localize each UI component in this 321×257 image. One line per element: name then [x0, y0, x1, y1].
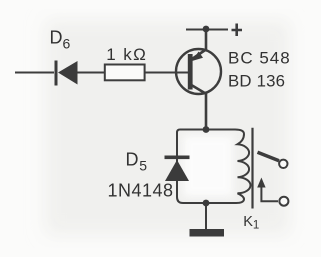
svg-text:1 kΩ: 1 kΩ	[106, 45, 147, 64]
svg-text:BD 136: BD 136	[228, 72, 285, 91]
svg-text:BC 548: BC 548	[228, 49, 291, 68]
svg-text:1N4148: 1N4148	[108, 181, 174, 201]
